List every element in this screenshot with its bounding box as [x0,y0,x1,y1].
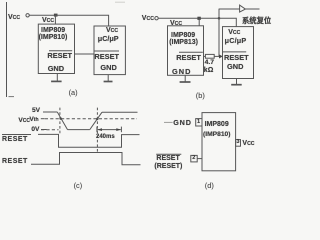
(c) label RESET-bar [2,136,28,143]
(c) vertical dashed marker t1 [59,108,61,134]
(a) Vcc input terminal [26,14,29,17]
(c) Vcc rising ramp [90,112,102,129]
(b) label 4.7 [205,60,214,67]
(b) Vcc input terminal [155,17,158,20]
(b) label Vcc (uC box) [228,29,240,36]
(c) RESET-bar waveform [38,134,140,147]
(a) label RESET (uC box) [94,53,119,60]
(a) label Vcc (uC box) [106,27,118,34]
(c) Vcc waveform 5V segment right [102,111,138,113]
(b) label RESET (uC box) [224,54,249,61]
(a) label Vcc pin [42,17,54,24]
(d) caption [205,182,214,189]
(b) wire resistor to uC RESET [214,55,219,57]
(a) wire Vcc terminal to junction [30,14,56,16]
(c) label Vcc [18,118,30,125]
(d) label GND [173,119,192,126]
(d) label Vcc [242,140,254,147]
(a) label RESET (IMP box) [47,52,72,59]
(c) label RESET [2,158,28,165]
(c) overline of RESET-bar label [2,134,31,136]
(a) label GND (IMP box) [48,65,64,72]
(b) label Vcc terminal [142,15,154,22]
(a) wire RESET to uC [75,53,95,55]
(b) junction dot at IMP Vcc stub [197,17,200,20]
(d) pin 3 box [236,140,241,147]
(c) 0V dashed line [41,129,59,131]
(d) pin number 1 [197,120,200,126]
(a) overline of RESET pin (uC box) [94,50,119,52]
(c) caption [74,182,83,189]
(b) supervisor IC box IMP809 (IMP813) [168,26,204,76]
(a) junction dot [54,14,58,17]
(d) label IMP809 [205,121,229,128]
(a) ground IMP box [51,74,62,82]
(c) dot Vth crossing (rising) [96,118,98,120]
(d) lead line GND [164,121,173,123]
(a) label Vcc terminal [8,14,20,21]
(c) vertical dashed marker t2 [96,108,98,153]
(d) pin number 2 [192,156,195,162]
(b) microprocessor box uC/uP [223,27,254,79]
(a) caption [69,89,78,96]
(c) dash after 0V label [41,129,47,131]
(a) label (IMP810) [39,34,68,41]
(a) label IMP809 [41,27,65,34]
(c) reset timeout arrow [97,127,122,133]
(c) Vcc waveform 5V segment left [43,111,57,113]
(a) overline of RESET pin (IMP box) [49,50,72,52]
(b) label system reset (chinese) [242,17,271,24]
(a) label GND (uC box) [100,64,116,71]
(b) buffer triangle [240,5,246,12]
(b) arrowhead into uC RESET pin [219,54,223,58]
(a) supervisor IC box IMP809 (IMP810) [38,24,74,73]
(b) junction dot at pull-up branch [218,17,220,19]
(c) dot Vth crossing (falling) [60,118,62,120]
(a) wire junction to uC Vcc pin [56,15,109,26]
(d) pin 1 box [196,119,202,126]
(b) ground IMP box [180,75,191,82]
(b) ground uC box [231,79,242,85]
(b) label (IMP813) [169,39,198,46]
(c) RESET waveform [31,153,141,165]
(b) overline of RESET pin (uC box) [223,51,247,53]
(b) label GND (IMP box) [172,68,191,75]
(b) label RESET (IMP box) [176,54,201,61]
(d) label (RESET) [154,163,182,170]
(b) wire buffer output [245,8,259,10]
(a) microprocessor box uC/uP [94,26,125,75]
(b) label Vcc pin [170,20,182,27]
(b) wire top rail to buffer [219,8,240,10]
(b) vertical wire Vcc to pull-up resistor [218,9,220,57]
(d) label (IMP810) [203,132,231,139]
(b) wire RESET to resistor [204,55,206,57]
(c) label 5V [32,108,40,115]
page border artifact (left vertical rule) [7,2,15,97]
(b) wire stub into IMP Vcc pin [198,18,200,26]
(a) label uC/uP [98,35,119,42]
(b) resistor 4.7k body [205,54,214,58]
(d) pin 2 box [191,155,197,162]
(d) pin number 3 [236,140,239,146]
(d) chip body IMP809 (IMP810) [202,113,236,171]
(b) label uC/uP [225,37,247,44]
(d) overline of RESET-bar label [156,153,181,155]
(d) lead pin2 to chip [197,158,202,160]
(c) label 0V [31,127,39,134]
(d) label RESET-bar [156,155,179,162]
(c) label Vth [29,117,38,124]
(c) Vth threshold dashed line [45,118,137,120]
(a) wire stub into IMP809 Vcc pin [54,15,56,24]
(a) ground uC box [104,75,113,82]
(c) Vcc falling ramp [57,112,67,130]
(b) label IMP809 [171,32,195,39]
(b) caption [196,92,205,99]
(b) wire Vcc rail to uC Vcc pin [158,18,236,26]
(c) dash after Vth label [41,118,45,120]
(b) overline of RESET pin (IMP box) [179,51,203,53]
(c) Vcc dip bottom segment [68,129,90,131]
(c) label 240ms [96,134,115,140]
(b) label GND (uC box) [227,63,243,70]
(b) label kOhm [204,67,214,74]
smudge artifact top middle [115,1,125,3]
